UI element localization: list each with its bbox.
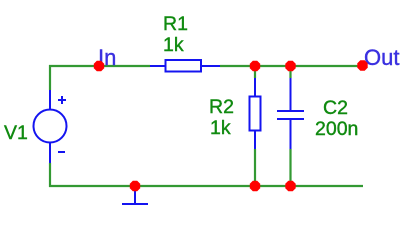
wire top horizontal left (In segment) <box>49 65 150 67</box>
svg-text:Out: Out <box>364 45 399 70</box>
wire left vertical <box>49 65 51 90</box>
svg-text:1k: 1k <box>210 117 231 139</box>
svg-text:200n: 200n <box>315 118 358 140</box>
svg-text:1k: 1k <box>163 34 184 56</box>
junction dot R2 bottom <box>250 181 260 191</box>
junction dot ground <box>130 181 140 191</box>
wire C2 top stub <box>289 66 291 78</box>
wire R2 top stub <box>254 66 256 78</box>
wire R2 bottom stub <box>254 149 256 187</box>
svg-text:R2: R2 <box>209 96 234 118</box>
junction dot C2 top <box>285 61 295 71</box>
junction dot R2 top <box>250 61 260 71</box>
ground <box>122 188 148 204</box>
capacitor C2 <box>277 77 304 150</box>
voltage source V1 <box>34 90 67 163</box>
wire top horizontal right (to Out) <box>220 65 363 67</box>
resistor R2 <box>250 77 261 150</box>
svg-text:V1: V1 <box>4 122 28 144</box>
junction dot C2 bottom <box>285 181 295 191</box>
wire bottom horizontal <box>49 185 363 187</box>
resistor R1 <box>150 60 220 72</box>
svg-text:C2: C2 <box>323 97 348 119</box>
junction dot Out <box>357 60 367 70</box>
junction dot In <box>94 61 104 71</box>
wire C2 bottom stub <box>289 149 291 187</box>
svg-text:R1: R1 <box>163 13 188 35</box>
